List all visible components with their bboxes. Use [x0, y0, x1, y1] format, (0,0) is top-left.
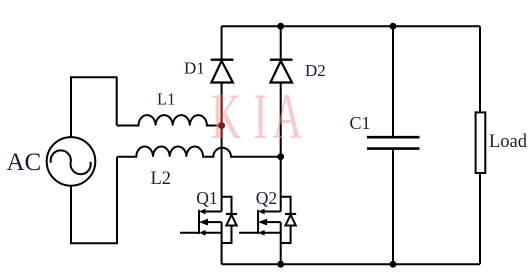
wire AC top lead up [71, 77, 117, 137]
node L1/D1 junction red tint [218, 122, 225, 129]
wire bottom rail [222, 263, 480, 265]
svg-text:Q1: Q1 [196, 188, 217, 208]
source stub [260, 232, 281, 234]
inductor L2 with hop over D1 column [117, 146, 281, 156]
inductor L1 [117, 115, 222, 125]
gate lead [239, 232, 258, 234]
body stub w/ arrow [207, 221, 222, 223]
gate bar [257, 210, 259, 234]
source column [221, 222, 223, 264]
gate lead [180, 232, 199, 234]
node top rail / D2 [277, 23, 284, 30]
node L1/D1 junction [218, 122, 225, 129]
source stub [201, 232, 222, 234]
svg-text:L2: L2 [151, 169, 172, 189]
svg-text:C1: C1 [350, 113, 371, 133]
MOSFET Q2 [239, 197, 296, 264]
svg-text:Load: Load [489, 132, 528, 152]
channel dashes [260, 209, 265, 213]
source column [280, 222, 282, 264]
capacitor C1 [367, 26, 420, 264]
load RL [476, 26, 486, 264]
svg-text:L1: L1 [157, 89, 175, 108]
body diode branch [281, 197, 291, 214]
diode D1 [211, 26, 234, 211]
drain stub [260, 211, 281, 213]
node bottom rail / C1 [390, 261, 397, 268]
node L2/D2 junction [277, 153, 284, 160]
wire D1 column red-tinted under K stem [221, 94, 223, 138]
node top rail / C1 [390, 23, 397, 30]
node bottom rail / Q2 source [277, 261, 284, 268]
MOSFET Q1 [180, 197, 237, 264]
wire AC bottom lead down [71, 157, 117, 244]
channel dashes [200, 209, 205, 213]
svg-text:KIA: KIA [211, 81, 302, 152]
svg-text:AC: AC [7, 149, 42, 176]
gate bar [198, 210, 200, 234]
drain stub [201, 211, 222, 213]
diode D2 [270, 26, 293, 211]
svg-text:Q2: Q2 [256, 188, 277, 208]
wire top rail [222, 25, 480, 27]
AC source [47, 137, 96, 186]
svg-text:D1: D1 [184, 59, 205, 78]
body diode branch [222, 197, 232, 214]
svg-text:D2: D2 [305, 61, 326, 80]
body stub w/ arrow [266, 221, 281, 223]
